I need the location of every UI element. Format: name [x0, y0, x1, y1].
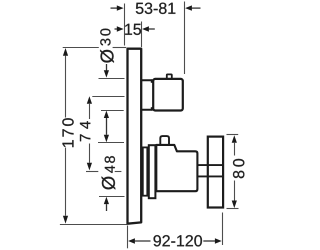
dimension 170 extension top — [63, 47, 99, 49]
lower sleeve — [143, 147, 148, 195]
O30 arrows — [104, 64, 109, 142]
thermostat neck joint dots — [151, 79, 154, 82]
dimension 15 — [115, 24, 155, 35]
cross handle bar (fill) — [208, 137, 223, 208]
dimension 53-81 — [111, 3, 201, 14]
thermostat handle neck — [142, 80, 153, 110]
O48 text — [102, 156, 116, 189]
volume handle barrel — [156, 145, 197, 191]
O30 extension bottom (handle bottom) — [101, 110, 124, 112]
O48 lower outside arrow — [104, 197, 109, 211]
O48 extension bottom — [99, 196, 125, 198]
thermostat handle body — [153, 79, 183, 111]
dimension 170 extension bottom — [60, 224, 127, 226]
volume handle knob — [160, 136, 169, 144]
cross handle bar (outline) — [208, 137, 223, 208]
cross handle stem — [198, 164, 224, 166]
extension line left of plate (shared by 53-81 and 15) — [124, 4, 126, 46]
dimension O30 text — [100, 29, 114, 63]
dimension 80 extensions — [227, 134, 239, 136]
O30 extension top (handle top) — [99, 78, 125, 80]
dimension 80 — [232, 135, 245, 208]
thermostat handle tab — [167, 74, 172, 79]
wall plate (escutcheon, side view) — [128, 49, 142, 224]
dimension 92-120 extensions — [127, 226, 129, 249]
dimension 74 — [80, 96, 92, 170]
dimension 74 extension top (handle axis) — [92, 96, 124, 98]
dimension 92-120 — [128, 235, 222, 246]
extension line plate back face — [141, 22, 143, 48]
dimension 74 extension bottom (lower axis) — [86, 171, 98, 173]
O48 extension top — [98, 142, 124, 144]
lower flange — [149, 145, 156, 198]
dimension 170 — [62, 48, 73, 224]
extension line handle front face — [184, 2, 186, 75]
